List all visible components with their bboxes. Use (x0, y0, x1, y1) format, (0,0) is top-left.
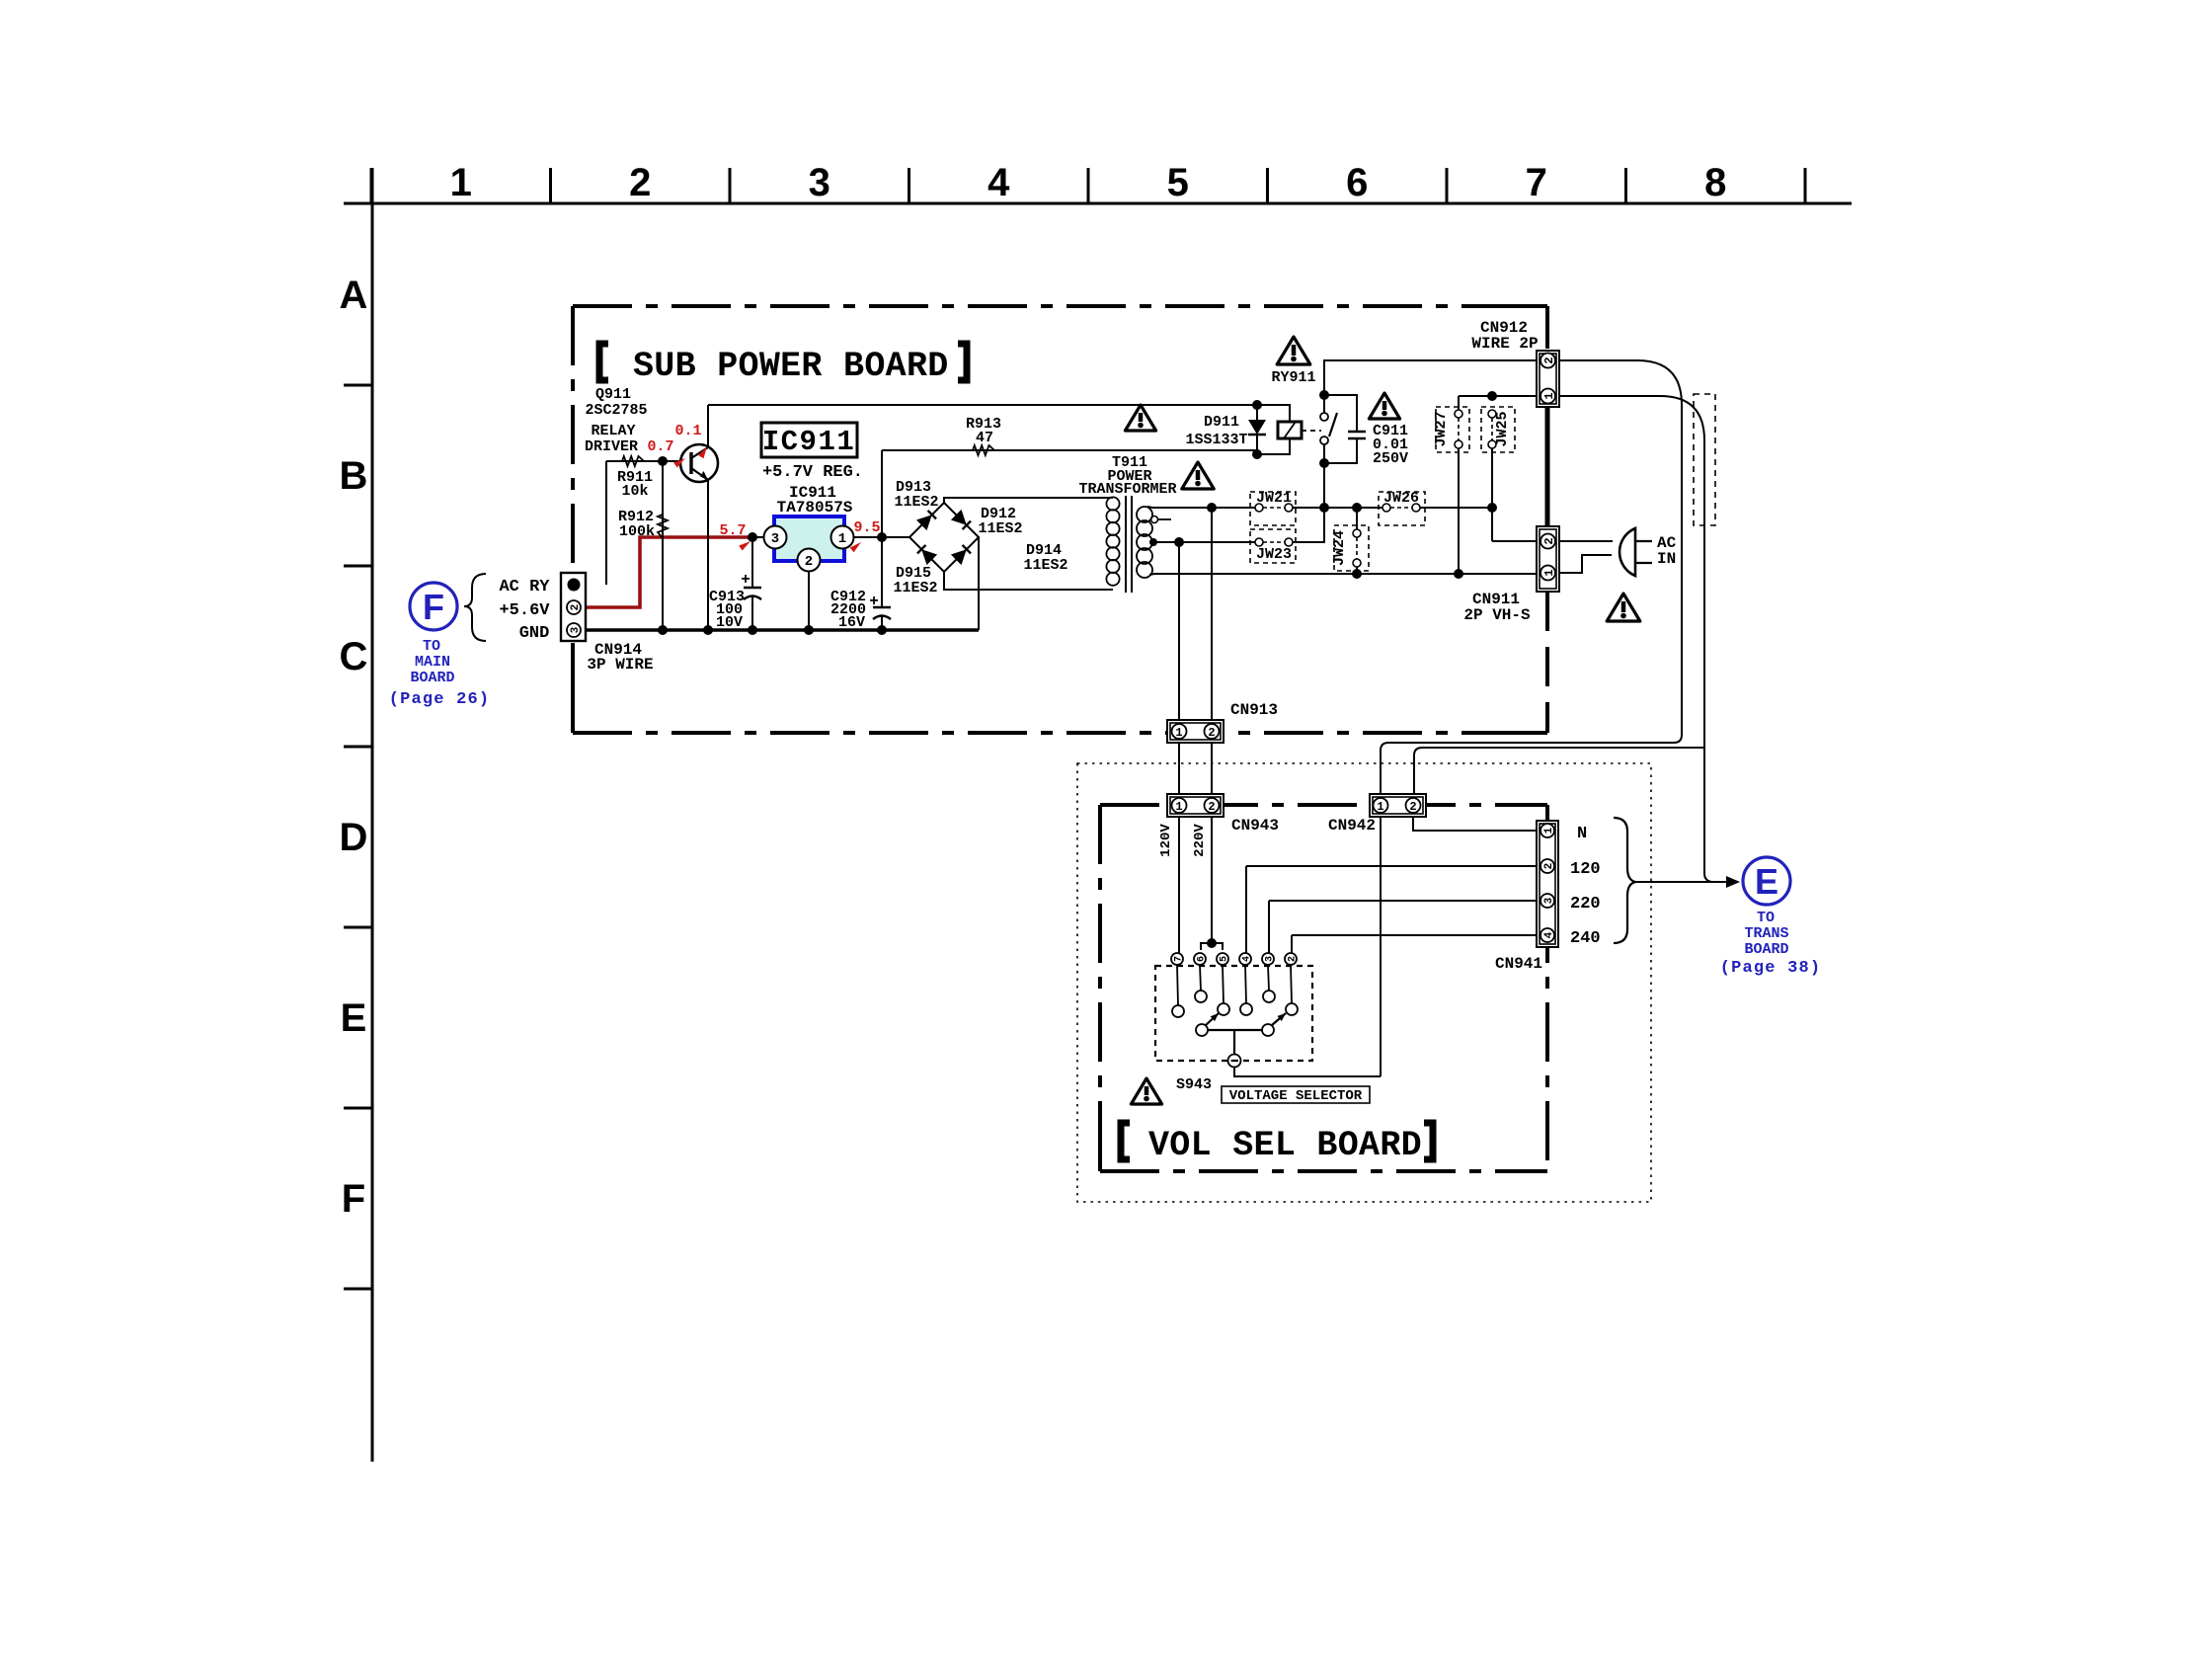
svg-text:BOARD: BOARD (410, 670, 454, 686)
svg-text:CN943: CN943 (1231, 817, 1279, 834)
svg-text:1: 1 (1542, 569, 1556, 576)
svg-text:MAIN: MAIN (415, 654, 450, 671)
svg-text:2: 2 (1208, 726, 1215, 740)
svg-text:1SS133T: 1SS133T (1185, 432, 1247, 448)
svg-text:1: 1 (450, 161, 472, 204)
svg-text:B: B (340, 454, 368, 498)
svg-text:3P WIRE: 3P WIRE (587, 656, 653, 674)
svg-text:4: 4 (1543, 931, 1555, 938)
svg-text:120V: 120V (1158, 824, 1174, 857)
svg-text:(Page 26): (Page 26) (389, 690, 491, 709)
svg-text:11ES2: 11ES2 (893, 580, 937, 596)
svg-text:AC RY: AC RY (499, 578, 550, 596)
svg-text:JW25: JW25 (1494, 411, 1511, 446)
svg-text:VOL SEL BOARD: VOL SEL BOARD (1148, 1126, 1422, 1165)
svg-text:1: 1 (1542, 392, 1556, 399)
svg-text:5: 5 (1167, 161, 1189, 204)
svg-text:IN: IN (1657, 550, 1676, 568)
svg-text:(Page 38): (Page 38) (1720, 959, 1822, 978)
svg-text:250V: 250V (1373, 450, 1408, 467)
svg-text:TRANS: TRANS (1744, 925, 1788, 942)
svg-text:0.7: 0.7 (647, 438, 673, 455)
svg-text:2SC2785: 2SC2785 (585, 402, 647, 419)
svg-text:4: 4 (987, 161, 1010, 204)
svg-text:TRANSFORMER: TRANSFORMER (1078, 481, 1176, 498)
svg-text:220: 220 (1570, 895, 1601, 913)
svg-text:JW23: JW23 (1256, 546, 1292, 563)
svg-text:240: 240 (1570, 929, 1601, 948)
svg-text:IC911: IC911 (762, 426, 856, 458)
svg-text:DRIVER: DRIVER (585, 438, 638, 455)
svg-text:5.7: 5.7 (719, 522, 746, 539)
svg-text:3: 3 (771, 531, 779, 547)
svg-text:+5.6V: +5.6V (499, 601, 550, 620)
svg-text:6: 6 (1346, 161, 1368, 204)
svg-text:8: 8 (1704, 161, 1726, 204)
svg-text:3: 3 (570, 626, 582, 633)
svg-text:2: 2 (805, 554, 813, 570)
svg-text:F: F (342, 1177, 365, 1221)
svg-text:TO: TO (423, 638, 440, 655)
svg-text:F: F (423, 587, 444, 627)
svg-text:WIRE 2P: WIRE 2P (1471, 335, 1538, 353)
svg-text:GND: GND (519, 624, 550, 643)
svg-text:RY911: RY911 (1271, 369, 1315, 386)
svg-text:+5.7V REG.: +5.7V REG. (762, 463, 863, 482)
svg-text:N: N (1577, 825, 1587, 843)
svg-text:7: 7 (1174, 956, 1185, 962)
svg-text:2: 2 (1288, 956, 1299, 962)
svg-text:2: 2 (629, 161, 651, 204)
svg-text:1: 1 (1377, 800, 1383, 814)
svg-text:JW21: JW21 (1256, 490, 1292, 507)
svg-text:2: 2 (1542, 357, 1556, 363)
svg-text:2: 2 (1542, 537, 1556, 544)
svg-text:JW24: JW24 (1331, 530, 1348, 566)
svg-text:4: 4 (1242, 956, 1253, 962)
svg-text:47: 47 (976, 430, 993, 446)
svg-text:2P VH-S: 2P VH-S (1463, 606, 1531, 624)
svg-text:E: E (341, 996, 367, 1040)
svg-text:16V: 16V (838, 614, 865, 631)
svg-text:2: 2 (1409, 800, 1416, 814)
svg-text:BOARD: BOARD (1744, 941, 1788, 958)
svg-text:11ES2: 11ES2 (894, 494, 938, 511)
svg-text:9.5: 9.5 (853, 519, 880, 536)
svg-text:RELAY: RELAY (591, 423, 635, 439)
svg-text:E: E (1755, 861, 1778, 902)
svg-text:CN913: CN913 (1230, 701, 1278, 719)
svg-text:S943: S943 (1176, 1076, 1212, 1093)
svg-text:D: D (340, 816, 368, 859)
svg-text:3: 3 (1265, 956, 1276, 962)
svg-text:7: 7 (1526, 161, 1547, 204)
svg-text:5: 5 (1220, 956, 1230, 962)
svg-text:1: 1 (838, 531, 846, 547)
svg-text:D911: D911 (1204, 414, 1239, 431)
svg-text:C: C (340, 635, 368, 678)
svg-text:10k: 10k (621, 483, 648, 500)
svg-text:TA78057S: TA78057S (777, 499, 853, 516)
svg-text:3: 3 (809, 161, 830, 204)
svg-text:2: 2 (570, 604, 582, 611)
svg-text:2: 2 (1543, 863, 1555, 870)
svg-text:6: 6 (1197, 956, 1208, 962)
svg-text:3: 3 (1543, 897, 1555, 904)
svg-text:1: 1 (1175, 726, 1182, 740)
svg-text:JW26: JW26 (1383, 490, 1419, 507)
svg-text:+: + (869, 593, 879, 610)
svg-text:Q911: Q911 (595, 386, 631, 403)
svg-text:1: 1 (1543, 827, 1555, 834)
svg-text:10V: 10V (716, 614, 743, 631)
svg-text:A: A (340, 274, 368, 317)
svg-text:11ES2: 11ES2 (1023, 557, 1067, 574)
svg-text:CN941: CN941 (1495, 955, 1542, 973)
svg-text:VOLTAGE SELECTOR: VOLTAGE SELECTOR (1229, 1088, 1363, 1104)
svg-text:11ES2: 11ES2 (978, 520, 1022, 537)
svg-text:100k: 100k (619, 523, 655, 540)
svg-text:CN942: CN942 (1328, 817, 1376, 834)
svg-text:220V: 220V (1192, 824, 1208, 857)
svg-text:SUB POWER BOARD: SUB POWER BOARD (633, 347, 949, 386)
svg-text:0.1: 0.1 (674, 423, 701, 439)
svg-text:120: 120 (1570, 860, 1601, 879)
svg-text:TO: TO (1757, 910, 1775, 926)
svg-text:1: 1 (1175, 800, 1182, 814)
svg-text:JW27: JW27 (1433, 411, 1450, 446)
svg-text:2: 2 (1208, 800, 1215, 814)
svg-text:+: + (741, 571, 750, 589)
